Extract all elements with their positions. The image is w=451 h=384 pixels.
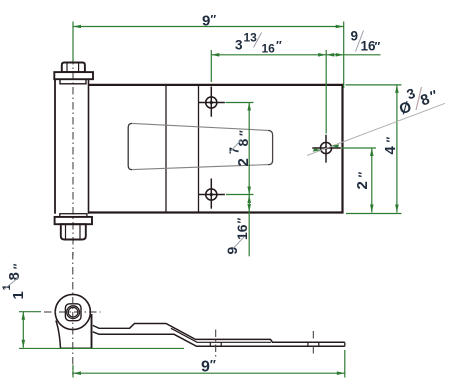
svg-text:″: ″ <box>235 218 249 224</box>
dimension 9 inch top: extension line left (bolt center) <box>72 22 74 62</box>
side view: bolt head inner circle <box>68 307 78 317</box>
dimension 9/16 bottom: rotated text <box>224 218 250 255</box>
bolt neck (top) <box>60 79 86 84</box>
dimension 2 7/8 inch: vertical line and arrows <box>247 103 251 195</box>
dimension 2 7/8: extension line from H2 <box>226 194 254 196</box>
side view: knuckle foot right edge <box>91 314 93 348</box>
hole H2 (bottom-left) <box>198 179 225 209</box>
top view: hinge leaf fold line x=166 <box>165 85 167 213</box>
dimension 1 1/8 inch: line and arrows <box>22 312 26 348</box>
dimension 9/16 bottom: fraction slash <box>233 237 245 249</box>
dimension 9 inch top: text <box>202 13 216 30</box>
svg-text:″: ″ <box>375 40 381 54</box>
hole diameter text: fraction slash <box>416 87 422 110</box>
bolt washer (bottom) <box>55 217 92 224</box>
side view: knuckle horizontal centerline <box>44 311 101 313</box>
side view: knuckle foot left edge <box>56 321 61 349</box>
svg-text:″: ″ <box>356 172 370 178</box>
svg-text:″: ″ <box>11 263 25 269</box>
dimension 2: rotated text <box>354 172 371 190</box>
svg-text:2: 2 <box>235 158 252 166</box>
dimension 9/16 inch bottom: line and arrows <box>247 195 251 257</box>
dimension 2 inch: line and arrows <box>370 148 374 213</box>
hole H1 (top-left) <box>198 87 225 117</box>
top view: hinge barrel left edge <box>54 79 56 214</box>
side view: strap pad top edge with bend and end step <box>130 324 345 343</box>
dimension 2: extension line from H3 <box>342 147 377 149</box>
svg-text:8: 8 <box>6 272 23 280</box>
dimension 4: extension line top (plate top edge) <box>346 84 402 86</box>
dimension 1 1/8: fraction slash <box>5 278 19 290</box>
svg-text:16: 16 <box>234 224 250 240</box>
top view: hinge barrel right edge <box>88 79 90 214</box>
svg-text:3: 3 <box>235 38 243 53</box>
spring clip (top view, grey edges) <box>128 123 272 169</box>
side view: bolt hex flats <box>65 304 81 321</box>
dimension 3 13/16: extension line from hole H1 <box>210 50 212 82</box>
dimension 3 13/16: extension line from hole H3 <box>325 50 327 134</box>
hole diameter leader arrows (green) <box>313 145 340 152</box>
bolt hex head (top) <box>62 63 85 73</box>
dimension 9 inch top: line and arrows <box>73 25 344 29</box>
dimension 4 inch: line and arrows <box>395 85 399 213</box>
dimension 9 bottom: text <box>201 358 216 376</box>
svg-text:2: 2 <box>354 181 371 189</box>
bolt centerline (top view) <box>72 57 74 256</box>
side view: hole 1 edges <box>210 342 221 346</box>
side view: knuckle circle <box>55 294 90 329</box>
side view: knuckle foot bottom edge <box>61 347 93 349</box>
dimension 4: rotated text <box>382 137 399 155</box>
dimension 9/16 inch top right: line and arrows <box>326 53 380 57</box>
dimension 3 13/16 inch: line and arrows <box>211 53 326 57</box>
svg-text:9: 9 <box>224 247 240 255</box>
svg-text:″: ″ <box>237 130 251 136</box>
bolt nut (bottom) <box>61 224 86 239</box>
dimension 1 1/8: extension line at knuckle center <box>19 311 41 313</box>
barrel bottom strip <box>60 214 87 217</box>
dimension 4/2: extension line bottom (plate bottom edge) <box>346 213 402 215</box>
svg-text:13: 13 <box>244 31 258 45</box>
svg-text:″: ″ <box>384 137 398 143</box>
dimension 2 7/8: extension line from H1 <box>226 102 254 104</box>
dimension 2 7/8: fraction slash <box>229 141 241 154</box>
svg-text:9: 9 <box>351 29 359 44</box>
top view: base plate outline <box>88 85 343 213</box>
side view: hole 2 edges <box>308 342 319 346</box>
dimension 9 inch top: extension line right (plate edge) <box>343 22 345 89</box>
hole diameter leader line (grey) <box>307 103 445 155</box>
side view: strap tip edge <box>344 342 346 346</box>
dimension 9 bottom: extension line left <box>72 365 74 378</box>
top view: plate edge line x=198.5 <box>198 85 200 213</box>
hole diameter text (rotated along leader) <box>393 78 441 119</box>
side view: hole 1 centerline <box>215 330 217 358</box>
dimension 1 1/8: rotated text <box>1 263 27 299</box>
svg-text:1: 1 <box>1 284 13 290</box>
dimension 9 bottom: extension line right (strap tip) <box>344 350 346 378</box>
dimension 2 7/8: rotated text <box>227 130 252 167</box>
svg-text:8: 8 <box>235 139 251 147</box>
side view: knuckle vertical centerline <box>72 252 74 375</box>
svg-text:16: 16 <box>262 42 276 56</box>
svg-text:″: ″ <box>276 39 282 53</box>
side view: strap top surface at bend <box>171 328 271 342</box>
side view: strap bottom surface <box>93 332 345 347</box>
dimension 9/16 top right: text <box>351 29 381 54</box>
svg-text:1: 1 <box>10 291 27 299</box>
dimension 3 13/16: text <box>235 31 282 56</box>
svg-text:4: 4 <box>382 146 399 155</box>
dimension 9 inch bottom: line and arrows <box>73 371 345 375</box>
side view: hole 2 centerline <box>312 331 314 356</box>
dimension 1 1/8: baseline extension line <box>19 347 184 349</box>
side view: bolt washer ring <box>67 306 80 319</box>
side view: strap top surface <box>93 325 130 328</box>
hole H3 (right) <box>312 135 341 163</box>
bolt washer (top) <box>54 72 93 79</box>
